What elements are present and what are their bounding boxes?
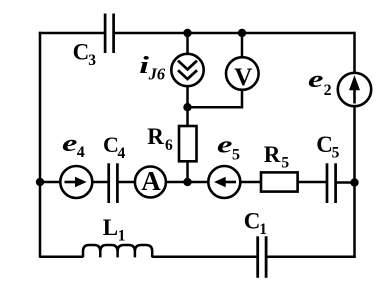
svg-text:4: 4 bbox=[77, 144, 85, 161]
label C1 bbox=[244, 208, 267, 238]
capacitor C3 bbox=[105, 14, 114, 54]
inductor L1 bbox=[83, 245, 152, 257]
node junction top (V branch) bbox=[238, 29, 246, 37]
label e_4 bbox=[62, 130, 85, 161]
svg-text:1: 1 bbox=[259, 221, 267, 238]
wire bottom-left to L1 bbox=[40, 255, 83, 258]
svg-text:C: C bbox=[316, 132, 333, 157]
capacitor C5 bbox=[327, 163, 336, 203]
label e_2 bbox=[308, 66, 332, 99]
node left middle bbox=[36, 178, 44, 186]
voltmeter V bbox=[226, 57, 259, 91]
svg-text:3: 3 bbox=[88, 52, 96, 69]
wire e_2 to right middle node bbox=[353, 106, 356, 183]
wire voltmeter down and left to node A bbox=[188, 90, 243, 107]
svg-text:1: 1 bbox=[118, 227, 126, 244]
label i_J6 bbox=[139, 52, 166, 84]
wire C3 to top-right corner bbox=[114, 32, 356, 35]
wire R6 to middle node bbox=[186, 161, 189, 182]
svg-text:R: R bbox=[264, 142, 281, 167]
svg-text:C: C bbox=[244, 208, 261, 233]
node middle (below R6) bbox=[183, 178, 191, 186]
node right middle bbox=[350, 178, 358, 186]
voltage source e_2 bbox=[338, 73, 371, 106]
wire C1 to bottom-right corner bbox=[266, 255, 356, 258]
voltage source e_5 bbox=[208, 166, 240, 198]
svg-text:5: 5 bbox=[332, 144, 340, 161]
wire right side bottom bbox=[353, 183, 356, 258]
svg-text:2: 2 bbox=[324, 82, 332, 99]
svg-text:e: e bbox=[217, 131, 232, 157]
capacitor C1 bbox=[258, 236, 266, 277]
label C5 bbox=[316, 132, 339, 162]
svg-text:L: L bbox=[103, 215, 118, 240]
label C3 bbox=[73, 39, 97, 69]
svg-text:V: V bbox=[234, 64, 252, 91]
wire left side bbox=[39, 32, 42, 258]
wire right side top to e_2 bbox=[353, 32, 356, 73]
svg-text:6: 6 bbox=[165, 137, 173, 154]
wire C4 to ammeter bbox=[117, 181, 135, 184]
resistor R5 bbox=[261, 172, 298, 191]
svg-text:R: R bbox=[147, 124, 164, 149]
wire left node to e_4 bbox=[40, 181, 61, 184]
svg-text:5: 5 bbox=[232, 146, 240, 163]
wire top node to voltmeter bbox=[241, 33, 244, 58]
svg-text:e: e bbox=[308, 66, 323, 92]
resistor R6 bbox=[179, 126, 197, 161]
svg-text:C: C bbox=[73, 39, 90, 64]
voltage source e_4 bbox=[60, 166, 92, 198]
svg-text:4: 4 bbox=[118, 145, 126, 162]
svg-text:C: C bbox=[103, 132, 119, 157]
wire i_J6 to node A bbox=[186, 86, 189, 127]
svg-text:A: A bbox=[141, 166, 161, 196]
current source i_J6 bbox=[171, 54, 203, 86]
label L1 bbox=[103, 215, 126, 244]
svg-text:J6: J6 bbox=[148, 65, 166, 84]
wire e_4 to C4 bbox=[92, 181, 108, 184]
wire R5 to C5 bbox=[298, 181, 327, 184]
svg-text:e: e bbox=[62, 130, 77, 156]
svg-text:5: 5 bbox=[281, 155, 289, 172]
wire top-left to C3 bbox=[39, 32, 105, 35]
label R5 bbox=[264, 142, 290, 172]
wire e_5 to R5 bbox=[240, 181, 261, 184]
ammeter A bbox=[135, 166, 166, 198]
wire top node to i_J6 source bbox=[186, 33, 189, 54]
label C4 bbox=[103, 132, 126, 162]
node A (junction below i_J6) bbox=[183, 103, 191, 111]
label e_5 bbox=[217, 131, 240, 163]
label R6 bbox=[147, 124, 173, 154]
wire C5 to right node bbox=[336, 181, 355, 184]
wire L1 to C1 bbox=[152, 255, 258, 258]
node junction top (i_J6 branch) bbox=[183, 29, 191, 37]
wire ammeter to e_5 bbox=[166, 181, 208, 184]
capacitor C4 bbox=[109, 163, 118, 203]
